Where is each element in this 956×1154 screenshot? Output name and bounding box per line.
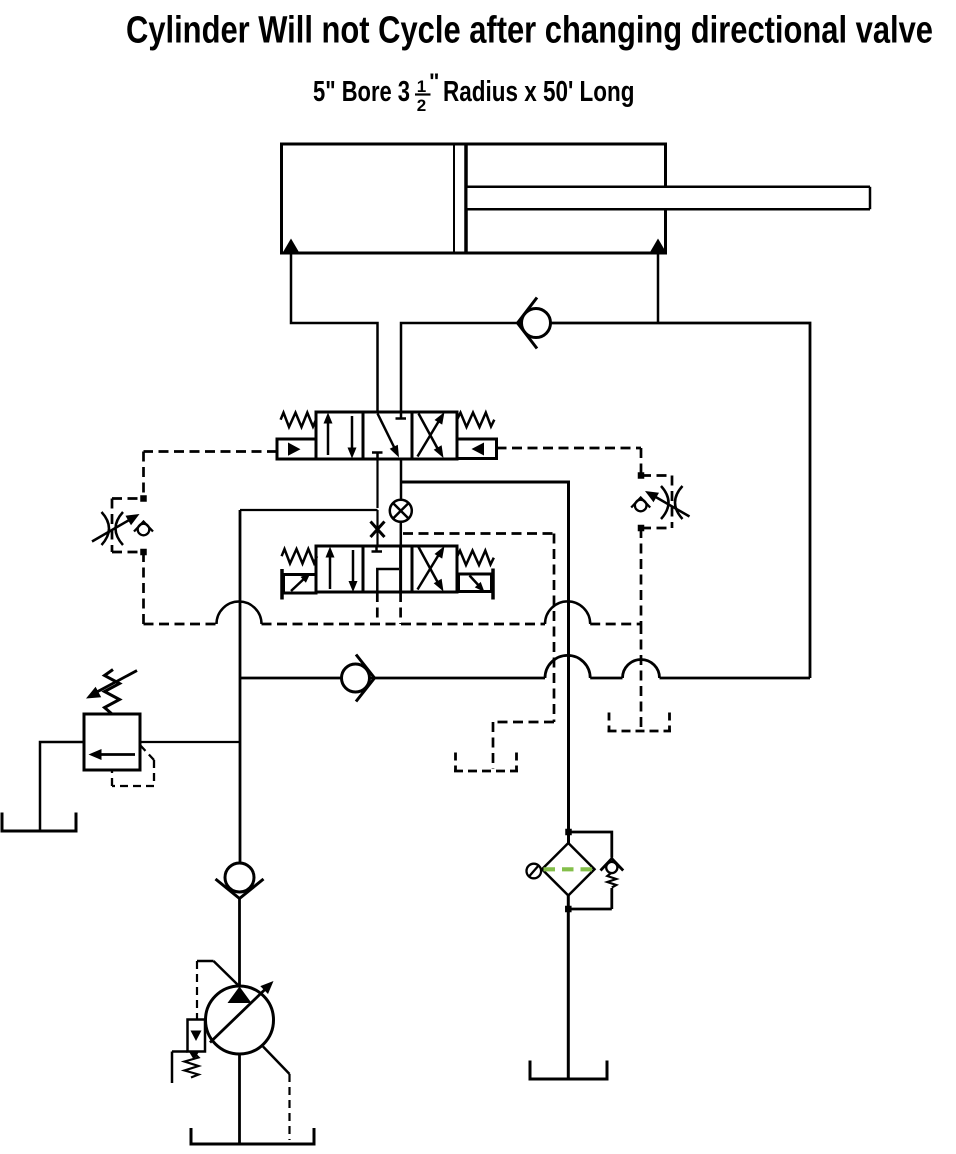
orifice plug symbol	[390, 500, 412, 522]
valve V2 left cell arrows	[326, 547, 358, 593]
valve V1 body	[316, 412, 457, 459]
filter bypass check valve	[601, 859, 624, 910]
wire pump to P junction	[240, 509, 378, 511]
drain bus horizontal left	[144, 623, 217, 626]
pump variable displacement arrow	[210, 981, 274, 1043]
subtitle text	[313, 69, 635, 115]
filter clogging indicator	[527, 864, 542, 879]
valve V1 left spring	[281, 413, 316, 427]
flow control FC1 dashed box	[112, 499, 144, 553]
check valve CV2	[342, 655, 375, 702]
node FC1 top junction	[140, 495, 147, 502]
cylinder cap-end port arrow	[283, 239, 300, 254]
valve V2 bottom dashed drains	[376, 592, 379, 624]
valve V2 right solenoid (proportional)	[459, 569, 494, 600]
pilot branch elbow	[493, 721, 554, 724]
cylinder rod	[468, 187, 871, 209]
svg-text:Radius x 50' Long: Radius x 50' Long	[443, 76, 635, 108]
filter F1 diamond	[542, 843, 595, 896]
pump compensator spring	[185, 1053, 199, 1078]
node FC2 bottom junction	[638, 525, 645, 532]
flow control FC2 venturi	[661, 486, 683, 519]
drain right riser	[640, 528, 643, 624]
valve V2 left spring	[282, 549, 317, 564]
pump compensator box	[188, 1020, 206, 1052]
cylinder rod-end port arrow	[650, 239, 667, 254]
wire T to return riser	[401, 482, 569, 843]
relief valve spring	[105, 670, 120, 715]
drain bus left riser	[142, 552, 145, 624]
tank T3	[190, 1128, 316, 1144]
wire hop over pump line	[217, 602, 262, 625]
flow control FC1 venturi	[102, 512, 124, 545]
cylinder body	[282, 144, 666, 253]
pump suction line	[238, 1054, 241, 1144]
pilot line right solenoid	[497, 447, 642, 450]
check valve CV1	[518, 298, 551, 349]
valve V1 left solenoid	[277, 439, 316, 459]
svg-text:": "	[429, 69, 439, 94]
flow control FC1 adjust arrow	[92, 514, 140, 542]
pilot branch from orifice	[403, 532, 554, 535]
valve V1 right solenoid	[457, 439, 497, 459]
node FC2 top junction	[638, 472, 645, 479]
valve V1 dividers	[362, 412, 365, 459]
valve V2 body	[316, 546, 457, 592]
flow control FC2 adjust arrow	[645, 491, 690, 517]
plugged X symbol	[371, 510, 385, 546]
wire orifice to valve V2 B port	[400, 522, 403, 546]
valve V2 right spring	[457, 551, 494, 565]
wire V1 P port down	[376, 459, 378, 508]
svg-text:1: 1	[417, 77, 426, 96]
flow control FC1 bypass check	[134, 522, 153, 536]
wire check line to right riser	[551, 323, 811, 678]
pilot line left solenoid	[144, 450, 278, 453]
filter bypass return	[568, 908, 612, 911]
flow control FC2 bypass check	[631, 498, 650, 512]
wire hop over return lines	[545, 601, 590, 624]
svg-text:5" Bore 3: 5" Bore 3	[313, 76, 410, 108]
return line to tank T2	[567, 896, 570, 1080]
relief valve RV1	[84, 714, 140, 770]
pump compensator bracket	[172, 1052, 188, 1084]
pump outlet triangle	[228, 987, 252, 1004]
svg-text:Cylinder Will not Cycle after: Cylinder Will not Cycle after changing d…	[126, 10, 933, 52]
pump case drain	[263, 1047, 290, 1141]
pump P1 circle	[206, 986, 274, 1054]
node FC1 bottom junction	[140, 549, 147, 556]
tank DT1 (dashed)	[454, 753, 518, 772]
wire rod-end drop	[657, 252, 660, 323]
svg-text:2: 2	[417, 96, 426, 115]
pump compensator pilot dashed	[196, 961, 198, 1020]
flow control FC2 dashed box	[641, 476, 672, 529]
tank DT2 (dashed)	[608, 713, 672, 732]
wire T port to orifice	[400, 482, 403, 500]
tank T2	[529, 1061, 609, 1080]
wire cap-end to valve A port	[291, 252, 378, 412]
valve V2 dividers	[362, 546, 365, 592]
valve V1 center cell: diagonal A-to-T arrow, blocked P and B	[372, 412, 406, 459]
valve V1 right cell crossed arrows	[418, 412, 445, 458]
bypass branch y=678	[240, 677, 342, 680]
valve V2 right cell crossed arrows	[418, 546, 445, 592]
pump pressure riser	[239, 510, 242, 863]
wire pump line to relief	[140, 741, 240, 743]
wire hop over return lines at 678	[545, 655, 590, 678]
wire valve B port to check line	[401, 323, 522, 412]
tank T1	[1, 813, 78, 832]
drain bus horizontal right	[590, 623, 641, 626]
valve V1 left cell arrows	[324, 413, 357, 459]
wire relief to tank T1	[40, 742, 84, 830]
cylinder piston	[453, 146, 455, 252]
drain bus horizontal center	[262, 623, 546, 626]
filter bypass branch	[568, 832, 612, 858]
node filter bottom junction	[565, 906, 572, 913]
valve V2 left solenoid (proportional)	[282, 569, 316, 600]
relief valve pilot loop	[112, 745, 154, 786]
pump yoke linkage	[197, 961, 238, 985]
check valve CV3	[216, 863, 264, 987]
valve V2 center cell: through path and blocked A	[372, 546, 401, 592]
filter element (green)	[544, 867, 593, 871]
relief valve adjust arrow	[86, 671, 137, 699]
valve V1 right spring	[457, 413, 494, 427]
wire hop over drain riser at 678	[623, 660, 660, 678]
node filter top junction	[565, 829, 572, 836]
wire V1 T port down	[400, 459, 403, 482]
